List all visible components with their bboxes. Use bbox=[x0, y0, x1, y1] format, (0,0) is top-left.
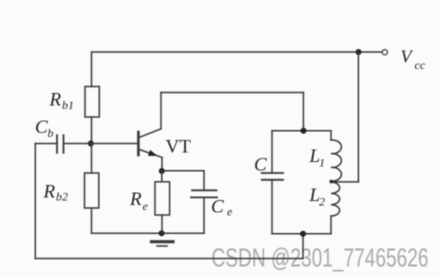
wire R_b2 bottom bbox=[91, 208, 93, 233]
transistor VT base bar bbox=[137, 132, 140, 155]
capacitor C_e bbox=[191, 190, 217, 197]
label L2 bbox=[309, 185, 326, 209]
label L1 bbox=[309, 146, 326, 170]
resistor R_b2 bbox=[85, 173, 99, 208]
label C_e bbox=[211, 197, 233, 219]
svg-text:C: C bbox=[211, 197, 224, 218]
wire Vcc top rail bbox=[92, 51, 381, 53]
wire base node to R_b2 bbox=[91, 144, 93, 174]
node emitter junction bbox=[159, 168, 165, 174]
svg-text:b: b bbox=[48, 126, 54, 140]
ground bbox=[152, 242, 174, 246]
wire R_e bottom bbox=[161, 215, 163, 233]
inductor L2 bbox=[331, 182, 340, 216]
svg-text:R: R bbox=[49, 89, 62, 110]
wire tap horizontal bbox=[331, 181, 358, 183]
transistor VT collector diagonal bbox=[140, 129, 162, 138]
svg-text:cc: cc bbox=[415, 58, 426, 72]
svg-text:e: e bbox=[227, 205, 233, 219]
node Vcc junction bbox=[356, 49, 362, 55]
wire bottom bias rail bbox=[92, 232, 205, 234]
svg-text:2: 2 bbox=[319, 195, 325, 209]
wire tank bottom rail bbox=[272, 233, 331, 235]
svg-text:b1: b1 bbox=[62, 98, 74, 112]
resistor R_e bbox=[155, 182, 170, 215]
svg-text:R: R bbox=[43, 181, 56, 202]
svg-text:R: R bbox=[129, 189, 142, 210]
resistor R_b1 bbox=[85, 87, 99, 118]
wire emitter to C_e bbox=[162, 171, 204, 191]
wire feedback riser to tank bottom bbox=[302, 234, 304, 259]
terminal Vcc open circle bbox=[382, 50, 387, 55]
wire C bottom lead bbox=[271, 180, 273, 234]
capacitor C_b bbox=[57, 135, 64, 153]
svg-text:b2: b2 bbox=[56, 190, 68, 204]
wire collector horizontal to tank bbox=[161, 92, 303, 94]
wire L2 bottom lead bbox=[330, 216, 332, 234]
svg-text:V: V bbox=[401, 47, 414, 67]
svg-text:C: C bbox=[35, 117, 48, 138]
wire tank top rail bbox=[272, 130, 331, 132]
transistor VT emitter diagonal with arrow bbox=[140, 150, 163, 158]
node tank bottom junction bbox=[300, 231, 306, 237]
wire C top lead bbox=[271, 131, 273, 173]
wire tank top drop bbox=[302, 93, 304, 131]
wire left feedback vertical bbox=[34, 144, 36, 259]
wire bottom feedback rail bbox=[35, 258, 303, 260]
label VT bbox=[166, 137, 192, 158]
label R_b1 bbox=[49, 89, 75, 112]
node tap junction bbox=[330, 180, 334, 184]
node base junction bbox=[88, 141, 94, 147]
label C tank bbox=[254, 155, 267, 176]
label R_b2 bbox=[43, 181, 69, 203]
svg-text:e: e bbox=[143, 199, 149, 213]
node ground junction bbox=[159, 230, 165, 236]
wire C_b left lead bbox=[35, 143, 57, 145]
inductor L1 bbox=[331, 140, 341, 181]
node tank top junction bbox=[301, 128, 307, 134]
wire R_b1 top bbox=[91, 52, 93, 87]
wire collector vertical bbox=[160, 93, 162, 129]
wire L top lead bbox=[330, 131, 332, 140]
wire C_e bottom bbox=[203, 197, 205, 233]
wire tap riser to Vcc bbox=[357, 52, 359, 182]
svg-text:VT: VT bbox=[166, 137, 192, 158]
label R_e bbox=[129, 189, 149, 213]
wire emitter to R_e bbox=[161, 171, 163, 182]
label C_b bbox=[35, 117, 54, 140]
svg-text:C: C bbox=[254, 155, 267, 176]
wire C_b right lead to base bbox=[64, 143, 138, 145]
wire emitter vertical bbox=[161, 157, 163, 171]
svg-text:1: 1 bbox=[319, 156, 325, 170]
wire R_b1 bottom to base node bbox=[91, 117, 93, 144]
label Vcc bbox=[401, 47, 426, 73]
capacitor C bbox=[262, 173, 283, 180]
watermark CSDN bbox=[212, 245, 429, 273]
